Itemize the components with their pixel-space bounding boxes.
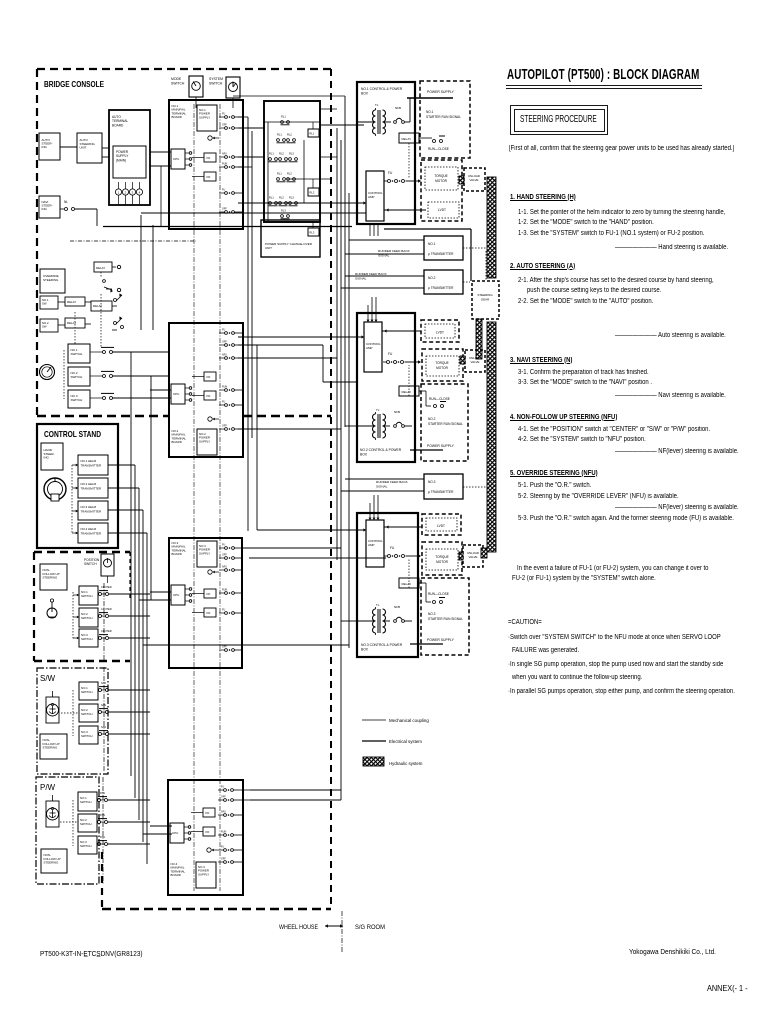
svg-text:FU: FU: [388, 352, 393, 356]
svg-text:RELAY: RELAY: [402, 390, 412, 394]
intro line: [509, 145, 734, 152]
wires: helm transmitter outputs to bus: [108, 465, 147, 533]
svg-text:RELAY: RELAY: [402, 582, 412, 586]
enclosure: S/W pump section: [37, 668, 108, 774]
U1 cpu: [171, 149, 192, 169]
wire: unit to terminal board lower: [102, 156, 109, 158]
power feed line no.1: [407, 97, 453, 99]
torque motor no.1 dashed enclosure: [421, 160, 462, 221]
svg-text:(MAIN): (MAIN): [116, 158, 126, 162]
svg-text:SWITCH: SWITCH: [81, 690, 92, 694]
svg-text:RUN: RUN: [222, 163, 227, 166]
trunk wire a: [247, 117, 249, 531]
svg-text:NO.3 HELM: NO.3 HELM: [81, 505, 97, 509]
p/w switch box NO.1: [78, 791, 150, 811]
s/w switch box NO.2: [79, 703, 150, 722]
mechanical coupling dash-dot from console: [70, 240, 196, 242]
svg-text:SIGNAL: SIGNAL: [355, 277, 367, 281]
svg-text:MOTOR: MOTOR: [436, 560, 449, 564]
svg-text:BOX: BOX: [361, 648, 369, 652]
box: power supply (auto terminal): [113, 146, 146, 178]
transmitter no.3: [341, 474, 486, 499]
svg-text:MODE: MODE: [171, 77, 182, 81]
svg-text:RL1: RL1: [269, 196, 274, 200]
dotted link relay to mode switch a: [74, 312, 76, 344]
change-over relay contact row at y122: [281, 115, 290, 125]
gang dotted line p/w: [72, 800, 74, 846]
svg-text:STEERING: STEERING: [43, 278, 59, 282]
svg-text:OFF: OFF: [221, 858, 226, 861]
wheel house dashed boundary bottom: [102, 852, 331, 909]
svg-text:CENTER: CENTER: [101, 629, 112, 633]
box: auto terminal board: [109, 110, 150, 205]
svg-text:TRANSMITTER: TRANSMITTER: [81, 486, 102, 490]
U2 v/f converter b: [192, 391, 216, 400]
svg-text:SWITCH: SWITCH: [80, 822, 91, 826]
svg-text:SUPPLY: SUPPLY: [199, 551, 210, 555]
U3 output contact row 4: [219, 589, 243, 595]
svg-text:BOARD: BOARD: [172, 115, 182, 119]
U1 output contact row 2: [219, 124, 243, 130]
power supply change-over lower box: [261, 220, 320, 257]
torque motor no.2 dashed enclosure: [422, 349, 463, 381]
unload valve no.3: [459, 545, 483, 567]
wire: auto steering to unit: [60, 146, 77, 148]
svg-text:1: 1: [118, 191, 120, 195]
procedure section 1: [510, 194, 576, 201]
svg-text:SWITCH: SWITCH: [81, 734, 92, 738]
svg-text:BOX: BOX: [361, 92, 369, 96]
U4 cpu: [170, 823, 191, 843]
bus stub to U3 cpu a: [150, 591, 171, 593]
wire U2 bottom row: [238, 428, 341, 430]
procedure section 5: [510, 470, 598, 477]
svg-text:V/F: V/F: [206, 592, 211, 596]
lvdt feedback wire no.2: [382, 329, 421, 332]
run-close contact no.1: [428, 136, 449, 151]
hydraulic elbow to unload valve 3: [481, 548, 487, 558]
change-over relay contact row at y179: [277, 172, 296, 182]
U3 monitor lamp: [208, 570, 219, 574]
svg-text:CPU: CPU: [172, 831, 178, 835]
change-over relay contact row at y140: [277, 133, 296, 143]
box: hand steering: [41, 443, 63, 470]
svg-text:POWER SUPPLY: POWER SUPPLY: [427, 638, 455, 642]
relay RL box a: [308, 122, 319, 137]
svg-text:TRANSMITTER: TRANSMITTER: [81, 531, 102, 535]
relay K1: [94, 262, 121, 293]
svg-text:NO.2: NO.2: [428, 276, 436, 280]
svg-text:RL2: RL2: [310, 191, 315, 195]
box: no.4 helm transmitter: [72, 523, 108, 543]
channel partition dash-dot line b: [219, 104, 221, 891]
wire: unit to terminal board: [102, 147, 109, 149]
box: non-follow up steering (top): [40, 564, 67, 590]
svg-text:NO.1 CONTROL & POWER: NO.1 CONTROL & POWER: [361, 87, 403, 91]
arrows into control amp 3 top: [369, 495, 380, 520]
svg-text:ING: ING: [44, 456, 50, 460]
dash-dot line through p/w contacts: [102, 777, 104, 884]
transmitter no.2: [341, 270, 470, 294]
override contact row 2: [40, 316, 124, 332]
mode switch contact box NO.2: [68, 367, 169, 386]
U4 monitor lamp: [207, 848, 218, 852]
U4 v/f converter b: [191, 827, 215, 836]
wire U1 row to trunk: [238, 116, 248, 118]
switch FU no.2: [383, 352, 421, 364]
bus wire v1: [130, 352, 132, 776]
relay no.2: [399, 365, 431, 406]
box: no.2 helm transmitter: [72, 478, 108, 498]
wires: mode/system switch drops into U1: [196, 101, 233, 108]
breaker NFB no.2: [394, 410, 412, 427]
svg-text:RL1: RL1: [310, 132, 315, 136]
footer drawing number: [40, 949, 143, 958]
wire U1 row2 to change-over: [238, 156, 264, 158]
svg-text:POWER SUPPLY CHANGE-OVER: POWER SUPPLY CHANGE-OVER: [265, 242, 313, 246]
box: auto steering: [39, 133, 60, 160]
svg-text:RUN—CLOSE: RUN—CLOSE: [429, 397, 450, 401]
svg-text:UNIT: UNIT: [80, 146, 87, 150]
svg-text:NO.4 HELM: NO.4 HELM: [81, 527, 97, 531]
svg-text:RL2: RL2: [279, 196, 284, 200]
svg-text:SWITCH: SWITCH: [171, 82, 185, 86]
dotted link pump to switches p/w: [60, 821, 78, 823]
change-over relay contact row at y216: [281, 209, 290, 219]
svg-text:TRANSMITTER: TRANSMITTER: [81, 463, 102, 467]
unit U3: NO.3 MAIN/FAIL terminal board: [169, 538, 242, 668]
U2 output contact row 4: [219, 386, 243, 392]
svg-text:SUPPLY: SUPPLY: [199, 439, 210, 443]
enclosure: non-follow-up steering section: [34, 552, 130, 661]
hydraulic bar upper: [487, 177, 496, 278]
svg-text:V/F: V/F: [206, 375, 211, 379]
svg-text:GEAR: GEAR: [481, 298, 490, 302]
svg-text:NO.1 HELM: NO.1 HELM: [81, 459, 97, 463]
U4 output contact row 1: [218, 786, 242, 792]
dash-dot divider below boundary: [341, 911, 343, 952]
svg-text:ING: ING: [42, 207, 48, 211]
U1 output contact row 5: [219, 189, 243, 195]
dashed box: no.2 run/starter/power: [410, 384, 468, 461]
mode selector knob: [40, 365, 55, 380]
enclosure: P/W pump section: [36, 777, 99, 884]
svg-text:S/G ROOM: S/G ROOM: [355, 924, 385, 931]
svg-text:FU: FU: [222, 189, 225, 192]
svg-text:MOTOR: MOTOR: [436, 366, 449, 370]
svg-text:NO.3: NO.3: [428, 480, 436, 484]
enclosure: control stand: [37, 424, 118, 548]
grey tie line in change-over unit: [287, 178, 330, 180]
terminals 1-4 of auto terminal board: [115, 182, 142, 205]
wire: U1 drop to bus bar: [160, 166, 162, 226]
svg-text:RL2: RL2: [287, 172, 292, 176]
procedure section 3: [510, 357, 572, 364]
wire U1 to change-over: [238, 127, 264, 129]
U2 v/f converter a: [192, 372, 216, 381]
s/w switch box NO.1: [79, 681, 150, 700]
U3 output contact row 1: [219, 544, 243, 550]
svg-text:UNIT: UNIT: [265, 246, 272, 250]
svg-text:OFF: OFF: [221, 796, 226, 799]
U4 output contact row 3: [218, 811, 242, 817]
wire U3 row: [242, 547, 341, 549]
svg-text:RL3: RL3: [310, 231, 315, 235]
svg-text:NFU: NFU: [222, 354, 227, 357]
lvdt no.1: [428, 202, 459, 218]
U3 v/f converter b: [192, 608, 216, 617]
svg-text:AMP: AMP: [368, 543, 375, 547]
inter-unit vertical link a: [140, 215, 142, 330]
wire into control amp 2 left: [338, 335, 364, 338]
U2 output contact row 2: [219, 341, 243, 347]
U1 output contact row 3: [219, 153, 243, 159]
svg-text:RL2: RL2: [279, 152, 284, 156]
U2 monitor lamp: [208, 417, 219, 421]
U4 output contact row 6: [218, 858, 242, 864]
svg-text:NFB: NFB: [394, 410, 400, 414]
trunk wire c: [256, 345, 258, 530]
wire U1 row2b to trunk: [238, 166, 252, 168]
svg-text:POWER SUPPLY: POWER SUPPLY: [427, 444, 455, 448]
svg-text:RUDDER FEED BACK: RUDDER FEED BACK: [378, 249, 411, 253]
caution block: [508, 619, 542, 626]
svg-text:RL3: RL3: [281, 209, 286, 213]
power supply change-over unit upper box: [264, 101, 320, 222]
unit U2: NO.2 MAIN/FAIL terminal board: [169, 323, 243, 457]
svg-text:STEERING: STEERING: [43, 746, 59, 750]
svg-text:P/W: P/W: [100, 813, 105, 817]
bus stub to U3 cpu b: [139, 599, 171, 601]
U3 v/f converter a: [192, 589, 216, 598]
svg-text:BOARD: BOARD: [172, 440, 182, 444]
svg-text:RL3: RL3: [289, 152, 294, 156]
svg-text:RL1: RL1: [277, 133, 282, 137]
unit U4: NO.4 MAIN/FAIL terminal board: [168, 780, 243, 895]
svg-text:OFF: OFF: [222, 554, 227, 557]
svg-text:CPU: CPU: [173, 593, 179, 597]
svg-text:BOX: BOX: [360, 453, 368, 457]
position switch: [84, 554, 114, 583]
torque motor no.1: [425, 167, 458, 190]
svg-text:NO.2 CONTROL & POWER: NO.2 CONTROL & POWER: [360, 448, 402, 452]
nfu switch box NO.1: [73, 585, 150, 605]
bus wire v3: [138, 488, 140, 820]
svg-text:FU: FU: [222, 113, 225, 116]
svg-text:SWITCH: SWITCH: [209, 82, 223, 86]
svg-text:SWITCH: SWITCH: [71, 375, 83, 379]
svg-text:AMP: AMP: [368, 195, 375, 199]
bus wire v4: [142, 510, 144, 842]
svg-text:TORQUE: TORQUE: [434, 174, 448, 178]
svg-text:RL2: RL2: [287, 133, 292, 137]
svg-text:TORQUE: TORQUE: [435, 361, 449, 365]
unit U1: NO.1 MAIN/FAIL terminal board: [169, 100, 243, 229]
change-over relay contact row at y159: [269, 152, 298, 162]
pump icon S/W: [46, 697, 59, 723]
wire across change-over row1: [264, 121, 320, 123]
enclosure: bridge console dashed boundary: [37, 69, 331, 909]
U2 output contact row 6: [219, 425, 243, 431]
svg-text:RL1: RL1: [277, 172, 282, 176]
svg-text:SWITCH: SWITCH: [81, 637, 92, 641]
svg-text:OFF: OFF: [222, 124, 227, 127]
svg-text:RUN—CLOSE: RUN—CLOSE: [428, 147, 449, 151]
trunk wire e: [340, 140, 342, 800]
svg-text:Mechanical coupling: Mechanical coupling: [389, 718, 429, 723]
svg-text:RUN: RUN: [221, 831, 226, 834]
wire U2 contact bend: [238, 345, 357, 382]
svg-text:NFU: NFU: [222, 153, 227, 156]
breaker NFB no.1: [394, 98, 410, 123]
wire U3 fu row: [249, 557, 386, 559]
dotted link pump to switches: [61, 712, 79, 714]
svg-text:SWITCH: SWITCH: [71, 352, 83, 356]
svg-text:NO.1: NO.1: [426, 110, 434, 114]
breaker NFB no.3: [394, 605, 412, 622]
svg-text:NFU: NFU: [222, 566, 227, 569]
svg-text:STEERING: STEERING: [43, 576, 59, 580]
lvdt feedback wire no.1: [384, 208, 426, 211]
wire U4 rows to unit: [242, 790, 250, 800]
transmitter no.1: [345, 236, 487, 260]
U1 output contact row 4: [219, 163, 243, 169]
trunk wire b: [251, 131, 253, 438]
bus stub to U4 cpu b: [143, 833, 172, 835]
svg-text:LVDT: LVDT: [436, 331, 444, 335]
svg-text:POWER SUPPLY: POWER SUPPLY: [427, 90, 455, 94]
svg-text:RUN: RUN: [222, 589, 227, 592]
dotted gang line of mode switch: [63, 350, 65, 399]
U3 output contact row 2: [219, 554, 243, 560]
svg-text:μ TRANSMITTER: μ TRANSMITTER: [428, 286, 454, 290]
svg-text:FU: FU: [222, 329, 225, 332]
U3 output contact row 3: [219, 566, 243, 572]
svg-text:NFB: NFB: [395, 106, 401, 110]
mechanical link to steering gear: [384, 229, 471, 281]
wire into control amp 1: [349, 201, 366, 204]
svg-text:SWITCH: SWITCH: [84, 562, 97, 566]
svg-text:4: 4: [139, 191, 141, 195]
svg-text:Tx: Tx: [376, 408, 380, 412]
contact NL: [60, 200, 97, 226]
relay (run-close) no.1: [399, 133, 432, 178]
svg-text:FU: FU: [222, 401, 225, 404]
U1 v/f converter b: [192, 172, 216, 181]
svg-text:NO.1: NO.1: [428, 242, 436, 246]
U1 v/f converter a: [192, 153, 216, 162]
svg-text:Tx: Tx: [375, 103, 379, 107]
svg-text:μ TRANSMITTER: μ TRANSMITTER: [428, 490, 454, 494]
svg-text:STARTER RUN SIGNAL: STARTER RUN SIGNAL: [428, 422, 463, 426]
torque motor no.3 dashed enclosure: [422, 542, 462, 575]
svg-text:RUN—CLOSE: RUN—CLOSE: [428, 592, 449, 596]
NO.2 control & power box enclosure: [357, 313, 415, 462]
svg-text:NFU: NFU: [221, 811, 226, 814]
svg-text:RUN: RUN: [222, 386, 227, 389]
wire co unit right mid: [320, 156, 337, 158]
U2 output contact row 5: [219, 401, 243, 407]
svg-text:P/W: P/W: [100, 835, 105, 839]
svg-text:μ TRANSMITTER: μ TRANSMITTER: [428, 252, 454, 256]
lvdt feedback wire no.3: [384, 525, 422, 528]
NO.1 control & power box enclosure: [357, 82, 415, 224]
wire long to control amp 3: [257, 529, 366, 531]
unload valve no.1: [459, 168, 485, 191]
inter-unit vertical link b: [152, 225, 154, 330]
svg-text:CENTER: CENTER: [101, 607, 112, 611]
svg-text:SWITCH: SWITCH: [80, 800, 91, 804]
mode switch contact box NO.3: [68, 390, 169, 408]
svg-text:STARTER RUN SIGNAL: STARTER RUN SIGNAL: [428, 617, 463, 621]
p/w switch box NO.3: [78, 835, 150, 854]
svg-text:SW: SW: [42, 301, 47, 305]
U3 power supply box: [197, 541, 217, 567]
svg-text:V/F: V/F: [206, 611, 211, 615]
svg-text:RL3: RL3: [289, 196, 294, 200]
pump icon P/W: [46, 801, 59, 827]
svg-text:NL: NL: [64, 200, 68, 204]
svg-text:SW: SW: [42, 324, 47, 328]
svg-text:STARTER RUN SIGNAL: STARTER RUN SIGNAL: [426, 115, 461, 119]
wire trunk to T2 transformer: [345, 425, 357, 427]
switch FU no.1: [384, 171, 421, 183]
U2 power supply box: [197, 429, 217, 455]
wire U4 row b: [250, 799, 341, 801]
procedure section 4: [510, 414, 617, 421]
steering procedure box: [510, 105, 608, 135]
switch FU no.3: [384, 546, 421, 558]
svg-text:Hydraulic system: Hydraulic system: [389, 761, 423, 766]
svg-text:NO.2 HELM: NO.2 HELM: [81, 482, 97, 486]
svg-text:BOARD: BOARD: [171, 873, 181, 877]
svg-text:RELAY: RELAY: [96, 266, 105, 270]
svg-text:VALVE: VALVE: [470, 178, 479, 182]
bus wire v2: [134, 465, 136, 798]
wire U3 lower row: [143, 644, 349, 646]
control amp no.2: [364, 322, 382, 372]
steering gear box: [472, 281, 499, 319]
transformer T2: [357, 408, 390, 440]
box: no.1 helm transmitter: [72, 455, 108, 475]
dash-dot line through nfu contacts: [103, 583, 105, 662]
trunk wire f: [344, 96, 346, 427]
control amp no.1: [366, 171, 384, 221]
U1 power supply box: [197, 105, 217, 131]
wire: terminal board to U1 cpu b: [150, 165, 171, 167]
svg-text:3: 3: [132, 191, 134, 195]
failure note paragraph: [517, 565, 708, 572]
svg-text:SWITCH: SWITCH: [81, 616, 92, 620]
control amp no.3: [366, 520, 384, 567]
svg-text:BOARD: BOARD: [172, 552, 182, 556]
svg-text:SUPPLY: SUPPLY: [198, 872, 209, 876]
box: non-follow up steering (s/w): [40, 734, 67, 759]
footer company: [629, 947, 716, 956]
title: [507, 66, 699, 83]
svg-text:SYSTEM: SYSTEM: [209, 77, 223, 81]
U1 monitor lamp: [208, 136, 219, 140]
legend mechanical coupling: [362, 718, 429, 723]
svg-text:V/F: V/F: [205, 830, 210, 834]
svg-text:BRIDGE CONSOLE: BRIDGE CONSOLE: [44, 79, 104, 89]
mech couple lines no.1: [370, 224, 378, 236]
dashed box: no.3 run/starter/power: [410, 578, 469, 655]
svg-text:WHEEL HOUSE: WHEEL HOUSE: [279, 924, 319, 931]
U3 output contact row 5: [219, 609, 243, 615]
system switch S2: [209, 77, 240, 101]
mode switch contact box NO.1: [68, 344, 169, 363]
